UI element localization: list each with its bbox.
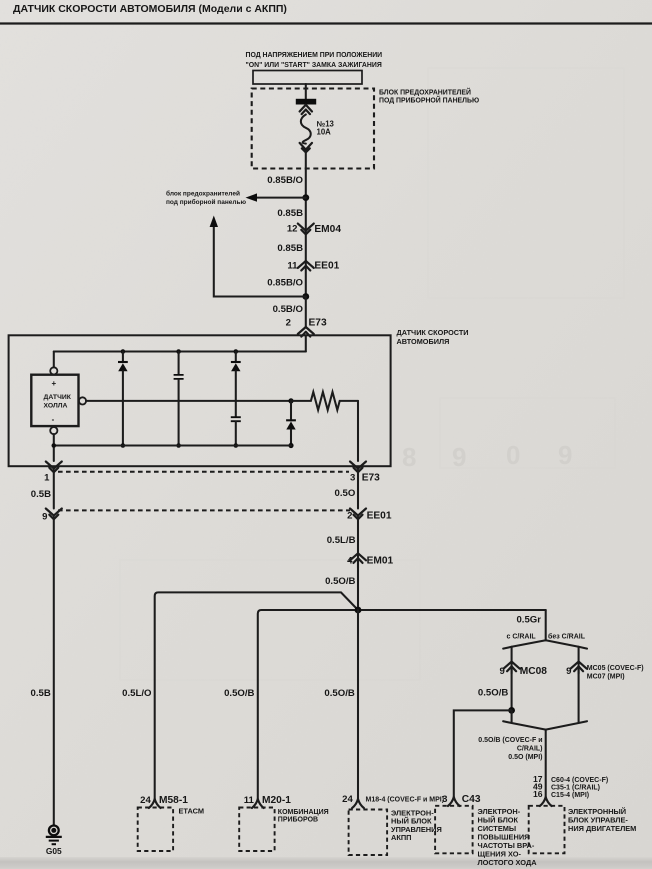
svg-text:MC08: MC08 — [520, 666, 548, 677]
svg-text:EE01: EE01 — [367, 511, 392, 522]
svg-text:ДАТЧИК: ДАТЧИК — [44, 394, 72, 401]
connector E73 dashed line — [58, 471, 349, 473]
wire EE01-2 to EM01-4 — [357, 517, 359, 568]
connector M18-4 label pin 24 — [342, 794, 444, 805]
svg-text:НИЯ ДВИГАТЕЛЕМ: НИЯ ДВИГАТЕЛЕМ — [568, 824, 636, 833]
engine ECU box dashed — [529, 806, 565, 854]
connector E73 pin 1 — [44, 462, 62, 484]
svg-text:E73: E73 — [362, 472, 380, 483]
merged wire label — [478, 737, 542, 761]
svg-text:ХОЛЛА: ХОЛЛА — [44, 403, 68, 410]
svg-text:9: 9 — [558, 440, 572, 470]
svg-text:0.85В: 0.85В — [277, 243, 303, 254]
wire junction D to C43 — [454, 710, 512, 797]
svg-text:11: 11 — [244, 795, 255, 806]
ignition feed label — [246, 52, 383, 69]
pins 17 49 16 — [533, 774, 543, 799]
svg-text:0.5О: 0.5О — [334, 488, 355, 499]
wire EM01-4 to junction C — [357, 560, 359, 610]
wire merge right branch — [546, 668, 587, 729]
svg-text:0.85В/О: 0.85В/О — [267, 278, 303, 289]
svg-text:2: 2 — [286, 318, 291, 329]
svg-text:9: 9 — [42, 511, 47, 522]
svg-text:0.5О/В: 0.5О/В — [324, 688, 354, 699]
wire E73-3 to EE01-2 — [357, 470, 359, 509]
svg-text:24: 24 — [342, 794, 353, 805]
connector EM01 pin 4 — [347, 553, 393, 566]
connector fork engine ECU — [540, 797, 552, 806]
bottom rail wire — [54, 444, 291, 446]
op hall sensor U1 box — [31, 375, 78, 426]
connector fork M18-4 — [352, 799, 364, 808]
svg-text:16: 16 — [533, 789, 543, 799]
svg-text:C/RAIL): C/RAIL) — [517, 746, 543, 753]
svg-text:9: 9 — [452, 442, 466, 472]
TCU box dashed — [349, 810, 388, 856]
svg-text:C43: C43 — [462, 794, 481, 805]
instrument cluster label — [278, 809, 329, 824]
svg-text:MC07 (MPI): MC07 (MPI) — [587, 673, 625, 680]
connector names C60-4 C35-1 C15-4 — [551, 777, 608, 799]
wire MC08 to junction D — [511, 668, 513, 710]
svg-text:0.5В: 0.5В — [31, 489, 51, 500]
hall sensor labels — [44, 379, 72, 424]
capacitor C2 — [231, 401, 241, 448]
svg-text:ПРИБОРОВ: ПРИБОРОВ — [278, 817, 318, 824]
svg-text:0.5В: 0.5В — [31, 688, 51, 699]
svg-text:с C/RAIL: с C/RAIL — [507, 634, 537, 641]
wire hall bottom to pin 1 — [53, 434, 55, 461]
idle-up ECU box dashed — [435, 806, 473, 854]
diode D1 — [118, 349, 128, 448]
svg-text:БЛОК ПРЕДОХРАНИТЕЛЕЙ: БЛОК ПРЕДОХРАНИТЕЛЕЙ — [379, 88, 471, 97]
connector E73 pin 2 — [286, 318, 327, 337]
diode D3 — [286, 401, 296, 448]
svg-text:АВТОМОБИЛЯ: АВТОМОБИЛЯ — [397, 337, 450, 346]
wire junction B to E73 — [305, 297, 307, 328]
fuse clip chevron up — [300, 105, 312, 114]
svg-text:2: 2 — [347, 511, 352, 522]
top rail wire — [54, 350, 306, 352]
hall sensor terminal circle top — [50, 367, 57, 374]
branch wire to fuse block (up arrow) — [214, 225, 306, 297]
svg-text:-: - — [52, 415, 55, 424]
svg-text:ПОД НАПРЯЖЕНИЕМ ПРИ ПОЛОЖЕНИИ: ПОД НАПРЯЖЕНИЕМ ПРИ ПОЛОЖЕНИИ — [246, 52, 383, 59]
svg-text:C15-4 (MPI): C15-4 (MPI) — [551, 792, 589, 799]
connector EE01 pin 9 — [42, 509, 62, 523]
connector EE01 pin 2 — [347, 509, 392, 522]
svg-text:0.5О/В: 0.5О/В — [224, 688, 254, 699]
connector EM04 pin 12 — [287, 224, 342, 235]
capacitor C1 — [174, 349, 184, 448]
svg-text:ЛОСТОГО ХОДА: ЛОСТОГО ХОДА — [478, 858, 538, 867]
svg-text:0.5О/В: 0.5О/В — [478, 687, 508, 698]
resistor R1 — [291, 392, 358, 410]
connector MC05/MC07 pin 9 — [566, 662, 643, 681]
idle-up ECU label — [478, 807, 538, 867]
svg-text:E73: E73 — [309, 318, 327, 329]
svg-text:11: 11 — [287, 260, 298, 271]
fuse box (dashed) — [252, 89, 374, 169]
svg-text:0.5О/B (COVEC-F и: 0.5О/B (COVEC-F и — [478, 737, 542, 744]
wire junction C to M18-4 — [357, 610, 359, 800]
svg-text:8: 8 — [402, 442, 416, 472]
svg-text:0.5В/О: 0.5В/О — [273, 304, 304, 315]
fuse box label — [379, 88, 479, 105]
junction B — [302, 293, 309, 300]
connector C43 label pin 3 — [442, 794, 481, 805]
connector EE01 pin 11 — [287, 260, 339, 271]
svg-text:АКПП: АКПП — [391, 833, 411, 842]
TCU label — [391, 808, 442, 842]
svg-text:C35-1 (C/RAIL): C35-1 (C/RAIL) — [551, 784, 600, 791]
wire E73-2 into box to top rail — [305, 335, 307, 351]
svg-text:под приборной панелью: под приборной панелью — [166, 198, 246, 206]
svg-text:0.5Gr: 0.5Gr — [516, 615, 541, 626]
vehicle speed sensor box — [9, 335, 391, 466]
fuse clip chevron down — [300, 143, 312, 153]
instrument cluster box dashed — [239, 808, 274, 852]
svg-text:0.85В/О: 0.85В/О — [267, 175, 303, 186]
svg-text:без C/RAIL: без C/RAIL — [548, 633, 586, 641]
wire branch left to MC08 — [511, 647, 513, 674]
wire stem down from bus — [545, 610, 547, 640]
svg-text:"ON" ИЛИ "START" ЗАМКА ЗАЖИГАН: "ON" ИЛИ "START" ЗАМКА ЗАЖИГАНИЯ — [246, 62, 382, 69]
wire resistor to E73-3 — [357, 401, 359, 461]
wire branch right to MC05/MC07 — [578, 647, 580, 674]
junction A — [302, 194, 309, 201]
connector MC08 pin 9 — [499, 662, 547, 678]
svg-text:ЕТАСМ: ЕТАСМ — [179, 806, 205, 815]
branch split ticks — [503, 640, 546, 648]
hall sensor terminal circle right — [79, 397, 86, 404]
svg-text:0.5L/B: 0.5L/B — [327, 535, 356, 546]
svg-text:КОМБИНАЦИЯ: КОМБИНАЦИЯ — [278, 809, 329, 816]
svg-text:0.85В: 0.85В — [277, 208, 303, 219]
svg-text:M58-1: M58-1 — [159, 795, 188, 806]
svg-text:M20-1: M20-1 — [262, 795, 291, 806]
junction D — [508, 707, 515, 714]
connector M58-1 label pin 24 — [140, 795, 188, 806]
svg-text:12: 12 — [287, 224, 298, 235]
bus wire lower (to M20-1) — [258, 610, 546, 800]
wire bar to fuse — [305, 84, 307, 99]
svg-text:10А: 10А — [317, 128, 332, 137]
svg-text:0.5L/O: 0.5L/O — [122, 688, 152, 699]
svg-text:0.5О (MPI): 0.5О (MPI) — [508, 754, 542, 761]
node middle rail — [288, 398, 293, 403]
diode D2 — [231, 349, 241, 401]
connector fork M58-1 — [149, 799, 161, 808]
middle rail wire — [86, 400, 291, 402]
svg-text:3: 3 — [350, 472, 355, 483]
svg-text:0: 0 — [506, 440, 520, 470]
svg-text:1: 1 — [44, 472, 50, 483]
svg-text:+: + — [51, 379, 56, 388]
svg-text:ДАТЧИК СКОРОСТИ АВТОМОБИЛЯ (Мо: ДАТЧИК СКОРОСТИ АВТОМОБИЛЯ (Модели с АКП… — [13, 3, 287, 15]
wire arrow to fuse block label — [254, 197, 306, 199]
svg-text:24: 24 — [140, 795, 151, 806]
connector M20-1 label pin 11 — [244, 795, 291, 806]
connector fork M20-1 — [252, 799, 264, 808]
bus wire upper (to M58-1) — [155, 592, 358, 800]
fuse №13 10A element — [301, 115, 311, 144]
wire merge left branch — [503, 710, 546, 729]
fuse terminal bar — [296, 99, 316, 105]
svg-text:MC05 (COVEC-F): MC05 (COVEC-F) — [587, 665, 644, 672]
svg-text:0.5О/В: 0.5О/В — [325, 576, 355, 587]
label to fuse block — [166, 190, 246, 207]
sensor box label — [397, 328, 469, 346]
ETACS box dashed — [138, 808, 173, 852]
svg-text:M18-4 (COVEC-F и MPI): M18-4 (COVEC-F и MPI) — [366, 796, 445, 803]
svg-text:EM04: EM04 — [314, 224, 341, 235]
svg-text:3: 3 — [442, 794, 447, 805]
svg-text:ДАТЧИК СКОРОСТИ: ДАТЧИК СКОРОСТИ — [397, 328, 469, 337]
connector EE01 dashed line — [58, 509, 350, 511]
svg-text:ПОД ПРИБОРНОЙ ПАНЕЛЬЮ: ПОД ПРИБОРНОЙ ПАНЕЛЬЮ — [379, 95, 479, 104]
node top rail / hall lead — [53, 352, 55, 368]
fuse value label — [317, 119, 335, 136]
hall sensor terminal circle bottom — [50, 427, 57, 434]
svg-text:блок предохранителей: блок предохранителей — [166, 190, 240, 198]
svg-text:C60-4 (COVEC-F): C60-4 (COVEC-F) — [551, 777, 608, 784]
wire pin1 to EE01-9 — [53, 470, 55, 509]
wire fuse to junction A — [305, 151, 307, 296]
connector fork C43 — [448, 797, 460, 806]
junction C — [355, 607, 362, 614]
ground G05 — [46, 826, 62, 857]
title rule — [0, 22, 652, 24]
engine ECU label — [568, 807, 636, 833]
svg-text:EM01: EM01 — [367, 555, 394, 566]
wire merge to engine ECU connector — [545, 730, 547, 797]
connector E73 pin 3 — [350, 462, 380, 484]
svg-text:G05: G05 — [46, 846, 62, 856]
wire EE01-9 to ground — [53, 517, 55, 825]
svg-text:EE01: EE01 — [314, 260, 339, 271]
power bus bar — [253, 71, 362, 85]
